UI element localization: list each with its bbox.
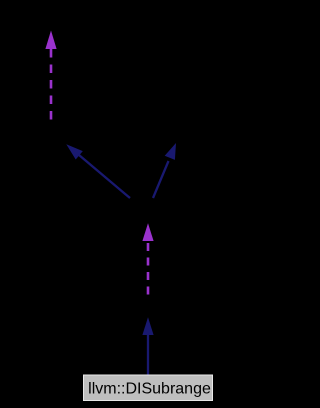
svg-text:llvm::DISubrange: llvm::DISubrange <box>88 381 211 398</box>
inheritance arrow: node D to node B (up-left) <box>66 144 130 198</box>
node llvm::DISubrange <box>84 375 213 401</box>
usage arrow (dashed) top-left: node B to node T <box>45 31 56 120</box>
inheritance arrow: llvm::DISubrange to node E <box>142 317 153 376</box>
usage arrow (dashed) middle: node E to node D <box>142 223 153 294</box>
inheritance arrow: node D to node C (up-right) <box>153 143 176 198</box>
